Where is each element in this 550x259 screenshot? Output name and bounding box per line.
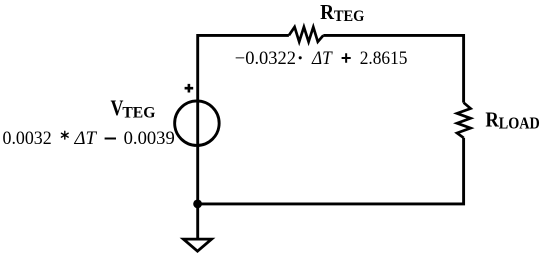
value label R_TEG plus operator xyxy=(342,53,351,63)
svg-text:R: R xyxy=(320,0,334,24)
wire top segment right xyxy=(323,35,465,102)
svg-text:ΔT: ΔT xyxy=(73,128,97,149)
svg-text:0.0039: 0.0039 xyxy=(124,128,175,149)
plus polarity mark xyxy=(185,84,194,93)
svg-text:LOAD: LOAD xyxy=(499,113,540,132)
resistor R_TEG zigzag xyxy=(289,27,323,42)
wire top segment left xyxy=(198,34,289,37)
svg-text:−0.0322: −0.0322 xyxy=(235,48,296,69)
value label V_TEG asterisk operator xyxy=(61,131,68,139)
svg-text:R: R xyxy=(485,108,499,132)
value label V_TEG minus operator xyxy=(105,138,116,140)
node junction dot xyxy=(193,200,202,209)
svg-text:TEG: TEG xyxy=(122,104,155,121)
wire left vertical through source to ground xyxy=(196,34,199,240)
svg-text:TEG: TEG xyxy=(334,7,365,25)
svg-text:0.0032: 0.0032 xyxy=(3,128,52,149)
wire right bottom + bottom wire xyxy=(198,138,465,206)
resistor R_LOAD zigzag xyxy=(457,103,471,138)
svg-text:ΔT: ΔT xyxy=(311,48,333,69)
voltage source V_TEG circle xyxy=(175,101,220,146)
ground symbol xyxy=(183,239,211,251)
value label R_TEG dot operator xyxy=(299,56,302,59)
svg-text:2.8615: 2.8615 xyxy=(360,48,408,69)
